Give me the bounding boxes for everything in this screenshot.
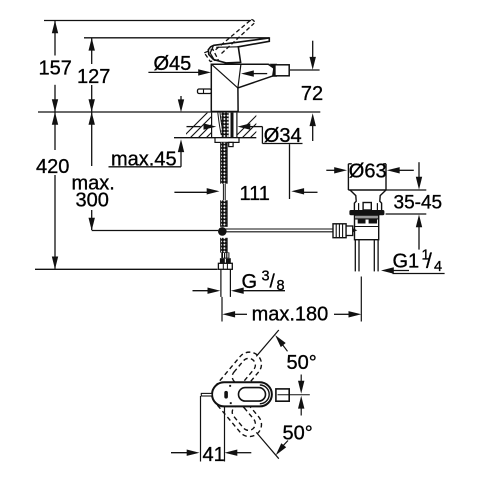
- svg-text:max.180: max.180: [252, 304, 329, 326]
- wire bottom hose reference line (420 level): [35, 268, 218, 270]
- dimension max300 vertical line: [91, 113, 93, 231]
- braided hose upper segment: [221, 143, 228, 184]
- drain body upper gray band: [355, 216, 378, 219]
- drain rod collar: [346, 226, 353, 236]
- svg-text:41: 41: [203, 444, 225, 466]
- dimension 35-45: [386, 162, 427, 249]
- pop-up rod middle thin segment: [222, 184, 224, 201]
- dimension G1 1/4 leader: [392, 271, 444, 274]
- dimension Ø63 arrows: [326, 169, 414, 171]
- dimension 111 arrows: [174, 144, 317, 199]
- dimension 420 arrows: [52, 112, 58, 269]
- pop-up rod in deck (black bar): [231, 113, 234, 138]
- G3/8 threaded stud: [220, 269, 222, 297]
- wire max300 reference line: [92, 230, 218, 232]
- drain overflow slots: [358, 220, 366, 224]
- drain lift-rod guide square: [363, 203, 371, 211]
- hose end hex nut: [218, 263, 232, 269]
- top view: left tab: [201, 393, 212, 396]
- svg-text:35-45: 35-45: [394, 193, 443, 214]
- faucet mounting hole left edge: [211, 113, 213, 138]
- braided hose middle segment: [221, 200, 228, 227]
- wire deck bottom line: [174, 137, 256, 139]
- drain body: [355, 215, 379, 240]
- dimension Ø34 arrows: [187, 127, 303, 144]
- lever inner edge line: [216, 46, 238, 49]
- svg-text:157: 157: [39, 58, 72, 80]
- svg-text:/: /: [426, 250, 432, 273]
- drain centerline below: [360, 277, 362, 322]
- svg-text:300: 300: [76, 190, 109, 212]
- svg-text:111: 111: [240, 183, 270, 205]
- hose end crimp ring: [221, 252, 229, 258]
- top view: lever slot: [239, 388, 266, 402]
- faucet interior vertical: [238, 64, 241, 88]
- 50 deg upper arrow: [275, 335, 286, 347]
- drain cup taper: [350, 190, 386, 210]
- lever knuckle facet line: [210, 46, 215, 61]
- top view: aerator square: [276, 389, 289, 401]
- top view: inner arc right end: [260, 385, 269, 404]
- 50 deg upper leader ray: [256, 330, 279, 356]
- svg-text:420: 420: [36, 156, 69, 178]
- spout end dark cap: [271, 64, 277, 76]
- lever dashed raised position: [204, 20, 254, 62]
- svg-text:max.45: max.45: [111, 149, 177, 171]
- shank clamp block: [229, 142, 233, 146]
- wire spout outlet extension line (72 level): [290, 69, 320, 71]
- wire top reference line (157 level): [44, 20, 251, 22]
- lever handle solid: [208, 38, 269, 63]
- aerator rectangle: [275, 65, 289, 76]
- dimension G3/8 arrows: [193, 290, 286, 292]
- svg-text:50°: 50°: [283, 423, 313, 445]
- svg-text:50°: 50°: [287, 352, 317, 374]
- svg-text:Ø63: Ø63: [349, 161, 387, 183]
- svg-text:G: G: [242, 271, 258, 293]
- faucet mounting hole right edge: [236, 113, 238, 138]
- threaded shank through deck (braided): [222, 113, 229, 138]
- svg-text:Ø34: Ø34: [264, 125, 302, 147]
- hose end cap: [220, 258, 231, 263]
- drain flange cup rim: [348, 164, 386, 190]
- top view: axis line: [278, 394, 310, 396]
- dimension max300 arrows: [89, 112, 95, 231]
- deck hatching right of shank: [232, 110, 286, 140]
- top view: 41 right reference line: [224, 398, 226, 462]
- drain tailpipe: [355, 240, 378, 272]
- top view: petal dash dots: [229, 385, 231, 387]
- svg-text:Ø45: Ø45: [154, 53, 192, 75]
- svg-text:G1: G1: [393, 251, 420, 273]
- drain rod knob ribbed: [333, 224, 346, 238]
- drain rod end pin: [353, 228, 357, 232]
- top view: dashed swivel petal upper: [207, 347, 266, 441]
- wire lever-tip reference line (127 level): [84, 37, 269, 39]
- dimension max.180: [234, 313, 351, 315]
- 50 deg lower arrow: [276, 443, 287, 455]
- braided hose lower segment: [221, 238, 228, 253]
- dimension Ø45 right arrow: [252, 73, 267, 75]
- svg-text:4: 4: [434, 259, 442, 275]
- drain rubber seal (black): [349, 210, 384, 215]
- svg-text:127: 127: [77, 66, 110, 88]
- horizontal pop-up rod to drain: [223, 228, 335, 230]
- dimension 420 vertical line: [54, 113, 56, 269]
- svg-text:72: 72: [301, 83, 323, 105]
- dimension 127 vertical line: [91, 38, 93, 111]
- top view: 41 left reference line: [200, 396, 202, 462]
- rod pivot junction dot: [218, 227, 227, 236]
- top view: pop-up hole pill: [224, 391, 228, 399]
- dimension 127 arrows: [89, 38, 95, 112]
- dimension max.45: [109, 96, 182, 167]
- faucet interior diagonal: [211, 64, 237, 88]
- dimension 72 vertical: [312, 41, 314, 141]
- drain neck bump lines: [359, 203, 378, 210]
- faucet centerline below stud: [221, 297, 223, 322]
- pop-up knob tab: [198, 89, 212, 94]
- hose curve in deck: [218, 113, 223, 135]
- dimension 41 arrows: [171, 452, 251, 454]
- deck hatching left of shank: [180, 110, 242, 140]
- faucet body white fill: [211, 64, 274, 111]
- dimension 157 arrows: [52, 21, 58, 113]
- dimension 157 vertical line: [54, 21, 56, 112]
- top view: faucet body stadium: [212, 382, 272, 406]
- dimension Ø45 leader left arrow: [148, 71, 200, 73]
- 50 deg lower leader ray: [256, 432, 279, 458]
- svg-text:3: 3: [262, 269, 270, 285]
- wire deck top line: [38, 111, 320, 113]
- svg-text:/: /: [270, 272, 276, 293]
- top view: dashed swivel petal lower: [207, 377, 266, 441]
- top view: angular dim vertical arrows at axis: [300, 375, 302, 383]
- shank nut flange: [215, 138, 239, 143]
- svg-text:8: 8: [277, 278, 285, 294]
